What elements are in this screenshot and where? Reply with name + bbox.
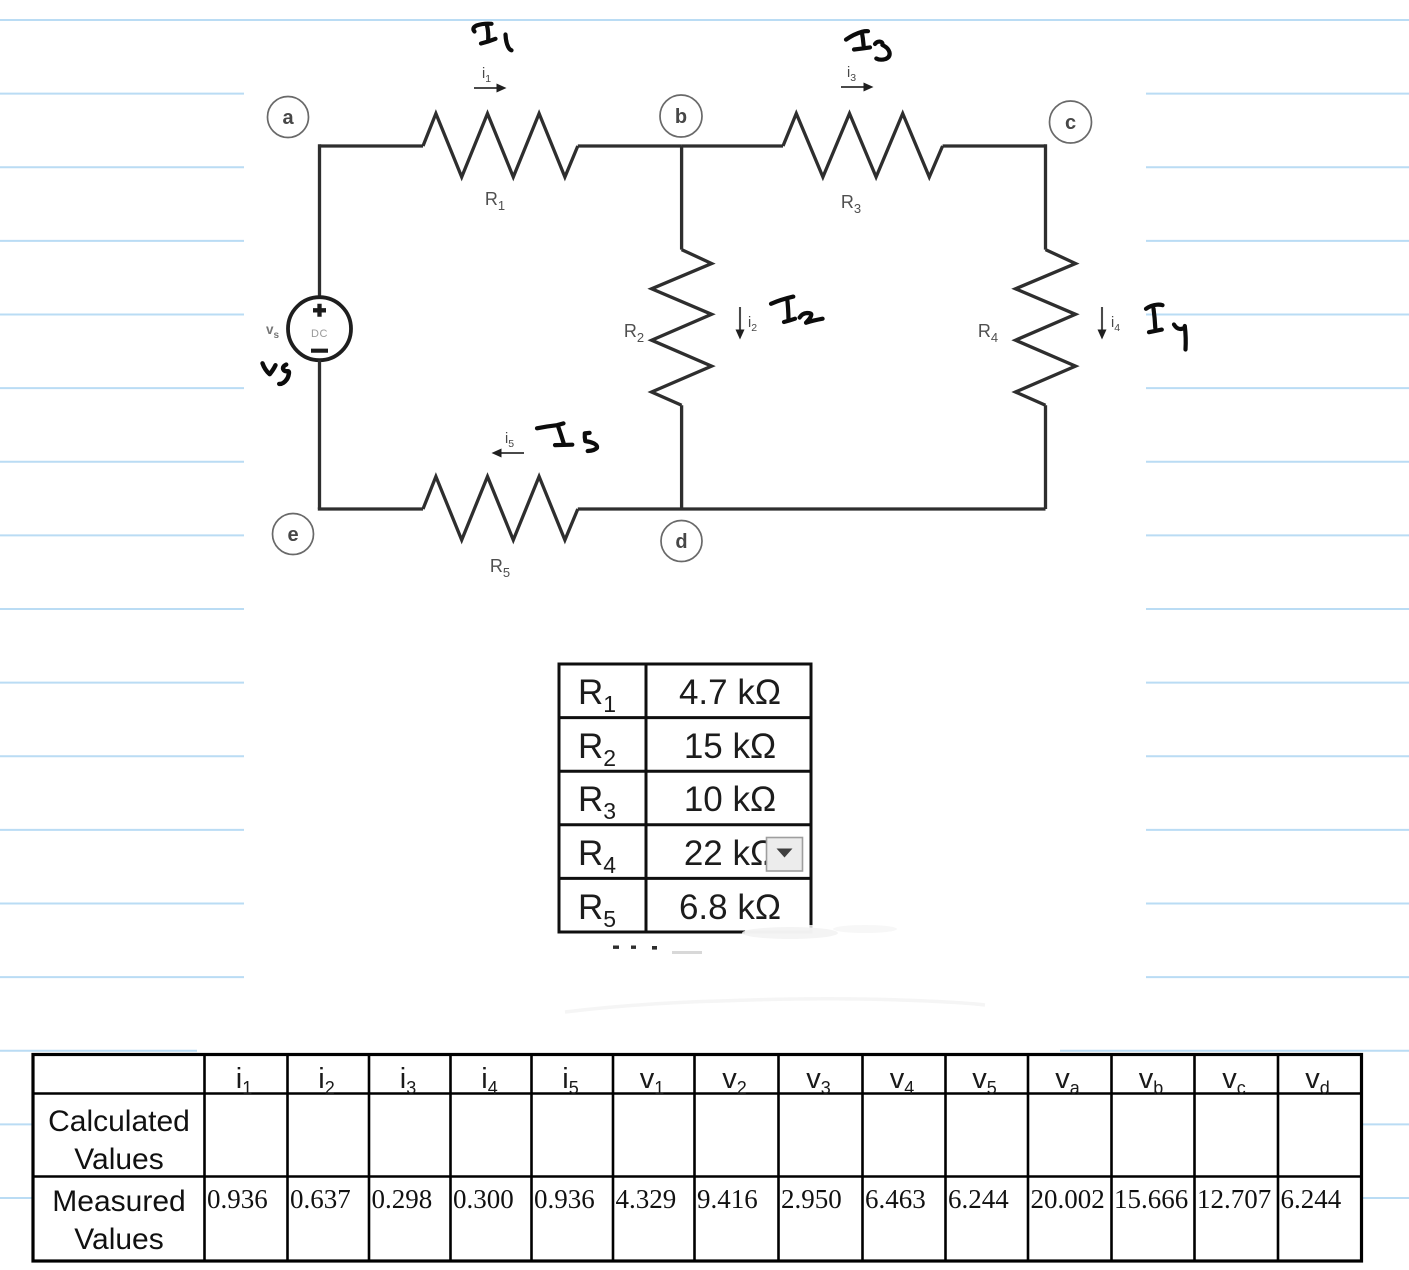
svg-text:d: d (675, 531, 687, 553)
wire R5-to-d-to-R4 bottom (578, 507, 1046, 510)
svg-text:0.298: 0.298 (372, 1184, 433, 1214)
svg-text:DC: DC (311, 328, 328, 340)
svg-text:i4: i4 (1111, 315, 1120, 334)
resistor R5 (423, 477, 578, 541)
resistor R2 (652, 250, 712, 406)
svg-text:6.244: 6.244 (1281, 1184, 1342, 1214)
row label Calculated Values (48, 1105, 190, 1176)
svg-text:b: b (675, 106, 687, 128)
current arrow i5 (492, 431, 525, 458)
wire bottom e-to-R5 (318, 507, 423, 510)
svg-text:15.666: 15.666 (1114, 1184, 1188, 1214)
node e (273, 514, 314, 555)
current arrow i2 (736, 307, 758, 340)
svg-text:20.002: 20.002 (1031, 1184, 1105, 1214)
wire b-to-R3 (682, 144, 783, 147)
node d (661, 521, 702, 562)
node b (660, 95, 702, 137)
svg-text:R4: R4 (978, 321, 998, 345)
svg-text:Measured: Measured (52, 1185, 185, 1218)
stray dots below table (613, 946, 657, 950)
svg-text:2.950: 2.950 (781, 1184, 842, 1214)
handwritten annotation I3 (846, 31, 890, 60)
svg-text:0.936: 0.936 (534, 1184, 595, 1214)
svg-text:6.8 kΩ: 6.8 kΩ (679, 888, 781, 927)
svg-text:i5: i5 (505, 431, 514, 450)
current arrow i3 (841, 65, 874, 92)
wire node b vertical upper (680, 146, 683, 250)
svg-text:0.637: 0.637 (290, 1184, 351, 1214)
svg-text:10 kΩ: 10 kΩ (684, 780, 776, 819)
svg-text:12.707: 12.707 (1197, 1184, 1271, 1214)
svg-text:15 kΩ: 15 kΩ (684, 727, 776, 766)
svg-text:22 kΩ: 22 kΩ (684, 834, 776, 873)
wire R2-to-d vertical lower (680, 405, 683, 509)
handwritten annotation vs (263, 363, 289, 384)
wire R3-to-c (943, 144, 1046, 147)
svg-text:i2: i2 (748, 315, 757, 334)
wire R1-to-b (578, 144, 682, 147)
wire R4 vertical lower (1044, 405, 1047, 509)
resistor R3 (783, 114, 943, 178)
svg-text:vs: vs (266, 322, 280, 341)
wire left vertical upper (318, 144, 321, 297)
svg-text:Calculated: Calculated (48, 1105, 190, 1138)
node a (268, 97, 309, 138)
svg-text:a: a (282, 107, 294, 129)
voltage source VS (DC) (288, 297, 351, 360)
node c (1050, 101, 1092, 143)
faint ghost squiggle (565, 999, 985, 1012)
resistor R1 (423, 114, 578, 178)
measurement results table (33, 1055, 1362, 1262)
svg-text:R3: R3 (841, 192, 861, 216)
handwritten annotation I1 (473, 24, 511, 51)
handwritten annotation I2 (771, 297, 823, 323)
smudge over table bottom border (745, 925, 815, 938)
svg-text:R1: R1 (485, 189, 505, 213)
svg-text:6.244: 6.244 (948, 1184, 1009, 1214)
wire node c vertical upper (1044, 144, 1047, 249)
svg-text:Values: Values (74, 1143, 164, 1176)
current arrow i4 (1098, 307, 1121, 340)
handwritten annotation I4 (1146, 305, 1186, 350)
svg-text:c: c (1065, 112, 1076, 134)
resistor R4 (1016, 250, 1076, 406)
svg-text:R5: R5 (490, 556, 510, 580)
svg-text:e: e (287, 524, 298, 546)
svg-text:6.463: 6.463 (865, 1184, 926, 1214)
svg-text:4.329: 4.329 (616, 1184, 677, 1214)
svg-text:9.416: 9.416 (697, 1184, 758, 1214)
svg-text:R2: R2 (624, 321, 644, 345)
svg-text:i3: i3 (847, 65, 856, 84)
resistor value table (559, 664, 985, 1012)
row label Measured Values (52, 1185, 185, 1256)
svg-text:i1: i1 (482, 66, 491, 85)
svg-text:4.7 kΩ: 4.7 kΩ (679, 673, 781, 712)
current arrow i1 (474, 66, 507, 93)
wire left vertical lower (318, 360, 321, 509)
svg-text:0.936: 0.936 (207, 1184, 268, 1214)
measured values row (207, 1184, 1342, 1214)
wire top-left a-to-R1 (320, 144, 424, 147)
svg-text:0.300: 0.300 (453, 1184, 514, 1214)
dropdown button on R4 (767, 838, 803, 872)
table header row (236, 1063, 1330, 1098)
handwritten annotation I5 (537, 423, 597, 451)
svg-text:Values: Values (74, 1223, 164, 1256)
